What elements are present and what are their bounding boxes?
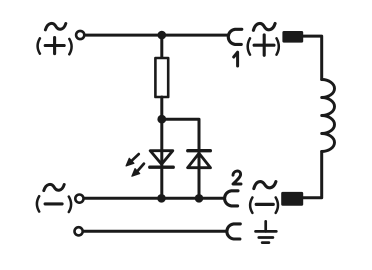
junction node A	[158, 31, 167, 40]
wire aux rail	[84, 230, 226, 233]
terminal circle bottom-left (-)	[75, 195, 83, 203]
ground symbol	[256, 221, 277, 242]
wire pin 1 to coil	[303, 36, 322, 79]
connector socket 1	[228, 29, 242, 44]
connector plug pin 2 body	[281, 192, 303, 206]
diode D2	[188, 151, 211, 168]
junction node D	[195, 194, 204, 203]
label (~ +) at pin 1	[248, 23, 279, 55]
junction node B	[157, 115, 166, 124]
LED D1	[150, 151, 173, 168]
label (~ -) at pin 2	[250, 182, 278, 213]
connector socket ground	[227, 224, 240, 239]
wire resistor bottom lead	[160, 97, 163, 119]
resistor R1	[155, 58, 168, 97]
LED D1 light arrows	[126, 154, 144, 176]
label pin 2	[233, 171, 241, 184]
connector socket 2	[225, 191, 238, 206]
wire branch node B to diode D2	[162, 119, 199, 150]
wire bottom (-) rail	[85, 197, 224, 200]
wire D2 lower lead	[198, 152, 201, 198]
terminal circle top-left (+)	[76, 31, 84, 39]
wire coil to pin 2	[303, 152, 322, 198]
inductor L1	[322, 80, 335, 152]
connector plug pin 1 body	[282, 31, 303, 43]
label (~ +) top-left	[38, 23, 72, 54]
junction node C	[157, 194, 166, 203]
wire LED D1 branch	[160, 119, 163, 198]
label pin 1	[234, 52, 238, 66]
terminal circle aux	[75, 227, 83, 235]
label (~ -) bottom-left	[37, 184, 71, 212]
wire resistor top lead	[160, 35, 163, 58]
wire top (+) rail	[86, 34, 228, 37]
